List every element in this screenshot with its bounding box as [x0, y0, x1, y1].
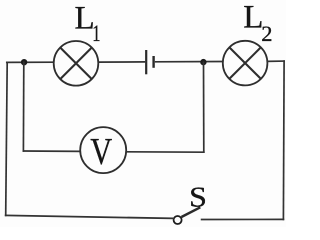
- lamp L1: [54, 41, 99, 86]
- wire: battery to right junction and lamp L2: [155, 61, 223, 63]
- svg-text:1: 1: [92, 21, 100, 46]
- junction dot (left, node between L1, voltmeter branch and left rail): [21, 59, 27, 65]
- junction dot (right, node between battery, L2 and voltmeter branch): [200, 59, 206, 65]
- battery cell (long plate): [145, 50, 147, 74]
- wire: bottom rail right of switch: [202, 218, 284, 220]
- switch S contact circle: [174, 216, 182, 224]
- wire: voltmeter branch vertical from left junction: [22, 62, 24, 151]
- lamp L2: [223, 41, 268, 86]
- svg-text:S: S: [189, 181, 207, 213]
- svg-text:2: 2: [261, 21, 272, 46]
- label L2: [243, 0, 272, 46]
- wire: left vertical rail: [6, 62, 8, 215]
- wire: right vertical rail: [282, 61, 285, 219]
- svg-text:V: V: [90, 131, 112, 173]
- wire: lamp L2 to top-right corner: [267, 60, 284, 62]
- wire: lamp L1 to battery: [98, 61, 145, 63]
- wire: top-left horizontal (left rail to lamp L1): [7, 61, 54, 63]
- wire: voltmeter branch horizontal left: [23, 150, 80, 152]
- wire: bottom rail left of switch: [6, 215, 174, 218]
- battery cell (short plate): [152, 56, 154, 68]
- wire: voltmeter branch horizontal right: [126, 151, 204, 153]
- switch S lever: [181, 207, 200, 217]
- label L1: [75, 1, 101, 47]
- voltmeter V: [80, 127, 126, 173]
- wire: voltmeter branch vertical to right junction: [203, 62, 205, 152]
